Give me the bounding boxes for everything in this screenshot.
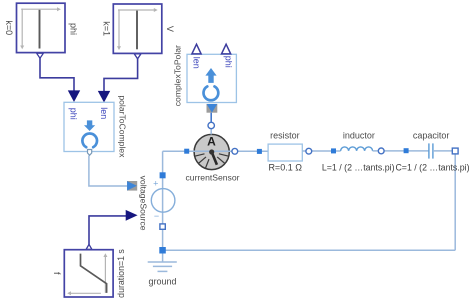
svg-text:V: V: [165, 26, 175, 32]
svg-text:len: len: [99, 107, 109, 119]
svg-text:phi: phi: [69, 108, 79, 120]
svg-text:k=0: k=0: [4, 20, 14, 35]
svg-text:k=1: k=1: [101, 21, 111, 36]
svg-text:len: len: [192, 57, 202, 69]
svg-text:C=1 / (2 …tants.pi): C=1 / (2 …tants.pi): [395, 162, 469, 172]
svg-text:polarToComplex: polarToComplex: [118, 95, 128, 158]
svg-text:capacitor: capacitor: [413, 131, 450, 141]
svg-text:duration=1 s: duration=1 s: [116, 249, 126, 298]
svg-text:complexToPolar: complexToPolar: [173, 45, 183, 106]
svg-text:−: −: [154, 211, 159, 221]
svg-text:inductor: inductor: [343, 131, 375, 141]
svg-text:phi: phi: [223, 56, 233, 68]
svg-text:voltageSource: voltageSource: [139, 176, 149, 231]
svg-text:L=1 / (2 …tants.pi): L=1 / (2 …tants.pi): [322, 162, 395, 172]
svg-text:resistor: resistor: [270, 131, 300, 141]
svg-text:A: A: [207, 134, 216, 148]
svg-text:phi: phi: [69, 23, 79, 35]
svg-text:+: +: [153, 178, 158, 188]
svg-text:R=0.1 Ω: R=0.1 Ω: [268, 162, 302, 172]
svg-text:currentSensor: currentSensor: [186, 172, 240, 182]
svg-text:ground: ground: [148, 276, 176, 286]
